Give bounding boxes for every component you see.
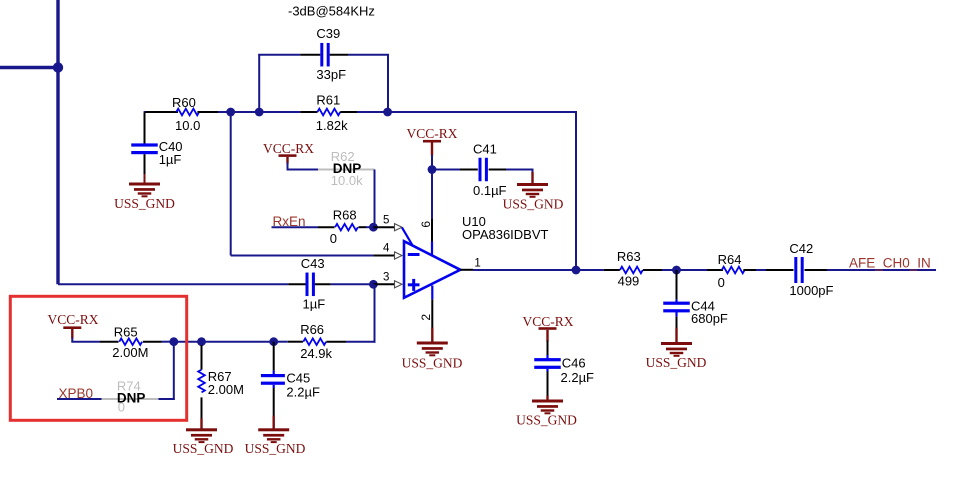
svg-text:1µF: 1µF <box>159 152 182 167</box>
label C40 value <box>159 152 182 167</box>
label C45 designator <box>286 371 310 386</box>
svg-text:OPA836IDBVT: OPA836IDBVT <box>462 227 549 242</box>
ground C44 USS_GND <box>661 342 692 357</box>
label pin 5 <box>383 214 389 226</box>
wire pin 2 <box>431 286 433 329</box>
label R65 designator <box>114 325 138 340</box>
wire C39 right branch <box>330 55 389 112</box>
svg-text:10.0k: 10.0k <box>331 173 363 188</box>
svg-text:R68: R68 <box>333 208 357 223</box>
svg-text:R64: R64 <box>718 252 742 267</box>
label R67 designator <box>208 369 232 384</box>
wire R60 to junction <box>218 111 231 113</box>
label R62 designator <box>331 149 355 164</box>
resistor R63 <box>620 267 643 274</box>
wire C41 right lead <box>489 170 534 175</box>
junction C39 right node <box>383 108 392 117</box>
label pin 4 <box>383 242 390 254</box>
svg-text:USS_GND: USS_GND <box>114 196 175 211</box>
junction pin 3 node <box>369 280 378 289</box>
label R68 value <box>330 231 337 246</box>
svg-text:USS_GND: USS_GND <box>173 441 234 456</box>
wire R66 up to pin3 node <box>374 284 376 342</box>
wire RxEn lead <box>272 226 335 228</box>
label R60 value <box>175 118 200 133</box>
label R62 value <box>331 173 363 188</box>
svg-text:10.0: 10.0 <box>175 118 200 133</box>
resistor R61 <box>317 109 340 116</box>
svg-text:C43: C43 <box>301 256 325 271</box>
label R61 designator <box>316 93 340 108</box>
wire VCC to R62 <box>287 163 319 170</box>
label C45 ground net <box>245 441 306 456</box>
wire C46 top lead <box>547 341 549 359</box>
capacitor C46 <box>534 358 561 369</box>
annotation -3dB@584KHz <box>288 4 375 19</box>
wire C43 right lead <box>315 283 374 285</box>
ground U10 USS_GND <box>417 342 448 357</box>
label C46 designator <box>562 356 586 371</box>
label C46 ground net <box>516 413 577 428</box>
label R67 value <box>208 382 244 397</box>
wire C44 gnd stub <box>675 328 677 343</box>
resistor R74 DNP wire <box>102 398 159 400</box>
svg-text:33pF: 33pF <box>316 67 346 82</box>
svg-text:2.00M: 2.00M <box>208 382 244 397</box>
wire C40 bottom lead <box>144 154 146 174</box>
svg-text:C45: C45 <box>286 371 310 386</box>
capacitor C42 <box>794 257 803 283</box>
wire pin5 lead <box>373 226 394 228</box>
power VCC-RX (C46) <box>522 314 573 341</box>
junction R74 node <box>169 337 178 346</box>
svg-text:USS_GND: USS_GND <box>516 413 577 428</box>
label R66 value <box>300 346 332 361</box>
junction output node <box>572 266 581 275</box>
pin 5 arrow <box>395 224 403 231</box>
svg-text:-3dB@584KHz: -3dB@584KHz <box>288 4 375 19</box>
label C42 designator <box>789 241 813 256</box>
svg-text:5: 5 <box>383 214 389 226</box>
svg-text:680pF: 680pF <box>691 311 728 326</box>
power VCC-RX (U10) <box>406 126 457 156</box>
wire pin3 lead <box>373 283 394 285</box>
svg-text:0: 0 <box>118 400 125 415</box>
label C44 ground net <box>646 355 707 370</box>
svg-text:USS_GND: USS_GND <box>646 355 707 370</box>
label C39 designator <box>316 26 340 41</box>
svg-text:1µF: 1µF <box>303 297 326 312</box>
wire C44 top lead <box>676 270 678 302</box>
wire C42 to AFE_CH0_IN <box>805 269 937 271</box>
wire between junctions <box>231 111 260 113</box>
wire C44 bottom lead <box>675 312 677 329</box>
label U10 designator <box>462 214 486 229</box>
wire R66 right lead <box>326 341 375 343</box>
wire C40 top lead <box>144 113 146 144</box>
wire C46 bottom lead <box>546 369 548 397</box>
label R74 designator <box>117 378 141 393</box>
wire C45 gnd stub <box>273 416 275 430</box>
wire R65 right lead <box>143 341 174 343</box>
svg-text:2.2µF: 2.2µF <box>286 385 320 400</box>
wire R61 right lead <box>340 111 387 113</box>
svg-text:2.00M: 2.00M <box>112 345 148 360</box>
wire R74 to R65 node <box>159 342 175 400</box>
op-amp minus symbol <box>408 253 420 256</box>
svg-text:USS_GND: USS_GND <box>402 356 463 371</box>
svg-text:USS_GND: USS_GND <box>245 441 306 456</box>
svg-text:USS_GND: USS_GND <box>503 197 564 212</box>
wire C40 gnd stub <box>144 174 146 184</box>
label net XPB0 <box>59 386 94 401</box>
label R65 value <box>112 345 148 360</box>
svg-text:R66: R66 <box>300 322 324 337</box>
label R60 designator <box>172 95 196 110</box>
wire R63 right lead <box>643 269 677 271</box>
wire R60 corner down to C40 <box>144 112 146 117</box>
junction input node <box>53 62 63 72</box>
pin 4 arrow <box>395 252 403 259</box>
label R64 designator <box>718 252 742 267</box>
resistor R66 <box>303 338 326 345</box>
junction pin6/C41 node <box>428 165 437 174</box>
svg-text:1000pF: 1000pF <box>789 283 833 298</box>
svg-text:24.9k: 24.9k <box>300 346 332 361</box>
wire R62 to pin5 node <box>374 170 376 228</box>
pin 3 arrow <box>395 281 403 288</box>
wire XPB0 lead <box>57 398 102 400</box>
label pin 2 <box>419 314 433 321</box>
wire R67 bottom lead <box>201 397 203 419</box>
svg-text:2: 2 <box>419 314 433 321</box>
label R61 value <box>316 118 348 133</box>
label C41 designator <box>473 141 497 156</box>
label C40 designator <box>159 139 183 154</box>
label C42 value <box>789 283 833 298</box>
wire C45 top lead <box>273 342 275 374</box>
wire R67 gnd stub <box>200 418 202 429</box>
wire C44 to R64 <box>677 269 724 271</box>
svg-text:1.82k: 1.82k <box>316 118 348 133</box>
ground C46 USS_GND <box>532 400 563 415</box>
svg-text:0: 0 <box>718 275 725 290</box>
svg-text:0.1µF: 0.1µF <box>473 183 507 198</box>
svg-text:4: 4 <box>383 242 390 254</box>
wire output to R63 <box>576 269 620 271</box>
label C40 ground net <box>114 196 175 211</box>
label R63 designator <box>617 249 641 264</box>
wire output lead <box>460 269 576 271</box>
wire input stub left <box>0 66 58 69</box>
label net RxEn <box>273 214 306 229</box>
wire inverting input <box>231 112 395 256</box>
wire input vertical bus <box>56 0 59 284</box>
junction C45 node <box>269 337 278 346</box>
svg-text:R63: R63 <box>617 249 641 264</box>
wire R65 node to R67 node <box>174 341 202 343</box>
wire C41 gnd stub <box>531 172 533 184</box>
power VCC-RX (R65) <box>47 312 98 339</box>
svg-text:C39: C39 <box>316 26 340 41</box>
label R74 DNP <box>117 390 146 405</box>
capacitor C40 <box>131 143 158 154</box>
wire C39 left branch <box>258 55 320 112</box>
svg-text:6: 6 <box>419 221 433 228</box>
resistor R65 <box>119 338 142 345</box>
wire pin2 gnd stub <box>431 328 433 343</box>
svg-text:C46: C46 <box>562 356 586 371</box>
wire C41 left lead <box>432 169 478 171</box>
svg-text:R61: R61 <box>316 93 340 108</box>
junction C39 left node <box>255 108 264 117</box>
label R74 value <box>118 400 125 415</box>
ground C40 USS_GND <box>129 183 160 198</box>
junction pin 5 node <box>369 223 378 232</box>
wire VCC to R65 <box>71 338 118 342</box>
svg-text:VCC-RX: VCC-RX <box>47 312 98 327</box>
wire R68 right lead <box>359 226 374 228</box>
wire feedback top <box>388 112 577 270</box>
wire C46 gnd stub <box>546 396 548 401</box>
wire R67 node to C45 node <box>202 341 274 343</box>
svg-text:3: 3 <box>383 272 389 284</box>
wire pin 6 <box>431 170 433 255</box>
label R63 value <box>618 273 640 288</box>
ground C45 USS_GND <box>258 428 289 443</box>
junction inverting node A <box>226 108 235 117</box>
wire R60 right lead <box>197 111 218 113</box>
label R66 designator <box>300 322 324 337</box>
capacitor C45 <box>261 374 285 385</box>
label net AFE_CH0_IN <box>849 256 931 271</box>
label C45 value <box>286 385 320 400</box>
label C46 value <box>561 370 595 385</box>
svg-text:C41: C41 <box>473 141 497 156</box>
wire C43 left lead <box>288 283 305 285</box>
resistor R60 <box>176 109 199 116</box>
label R64 value <box>718 275 725 290</box>
capacitor C44 <box>663 302 690 313</box>
label C41 ground net <box>503 197 564 212</box>
label C43 designator <box>301 256 325 271</box>
wire input to C43 <box>58 283 288 285</box>
wire R60 left lead <box>145 111 179 112</box>
svg-text:2.2µF: 2.2µF <box>561 370 595 385</box>
label pin 1 <box>474 257 480 269</box>
svg-text:0: 0 <box>330 231 337 246</box>
wire pin 5 diagonal <box>402 228 413 246</box>
resistor R64 <box>722 267 745 274</box>
svg-text:VCC-RX: VCC-RX <box>406 126 457 141</box>
wire R61 left lead <box>259 111 317 113</box>
ground C41 USS_GND <box>517 183 548 198</box>
highlight red box <box>10 296 186 420</box>
label C39 value <box>316 67 346 82</box>
wire R64 right lead <box>743 269 793 271</box>
label pin 6 <box>419 221 433 228</box>
op-amp U10 triangle <box>404 241 460 298</box>
svg-text:VCC-RX: VCC-RX <box>263 141 314 156</box>
label U10 ground net <box>402 356 463 371</box>
label U10 part number <box>462 227 549 242</box>
resistor R68 <box>335 224 358 231</box>
ground R67 USS_GND <box>186 428 217 443</box>
label R67 ground net <box>173 441 234 456</box>
resistor R67 <box>198 370 205 393</box>
svg-text:VCC-RX: VCC-RX <box>522 314 573 329</box>
capacitor C43 <box>306 273 315 297</box>
junction R67 node <box>197 337 206 346</box>
svg-text:499: 499 <box>618 273 640 288</box>
svg-text:1: 1 <box>474 257 480 269</box>
op-amp plus symbol <box>408 279 420 291</box>
capacitor C39 <box>320 43 329 66</box>
svg-text:R65: R65 <box>114 325 138 340</box>
svg-text:C42: C42 <box>789 241 813 256</box>
wire R67 top lead <box>201 342 203 370</box>
svg-text:R60: R60 <box>172 95 196 110</box>
svg-text:AFE_CH0_IN: AFE_CH0_IN <box>849 256 931 271</box>
wire C45 node to R66 <box>274 341 303 343</box>
label C43 value <box>303 297 326 312</box>
label C41 value <box>473 183 507 198</box>
junction C44 node <box>672 266 681 275</box>
label R68 designator <box>333 208 357 223</box>
label pin 3 <box>383 272 389 284</box>
label R62 DNP <box>333 161 362 176</box>
power VCC-RX (R62) <box>263 141 314 163</box>
wire C45 bottom lead <box>273 385 275 417</box>
label C44 value <box>691 311 728 326</box>
resistor R62 DNP wire <box>318 169 375 171</box>
capacitor C41 <box>479 158 488 182</box>
label C44 designator <box>691 299 715 314</box>
wire VCC to pin6 node <box>431 155 433 170</box>
